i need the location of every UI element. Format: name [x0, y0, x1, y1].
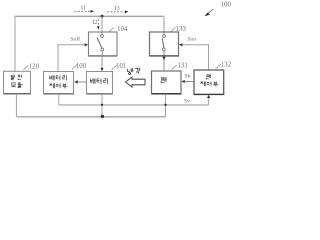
arrow: battery to battery control unit — [78, 81, 87, 83]
label 100 with leader — [72, 64, 78, 69]
label 104 with leader — [109, 27, 114, 31]
text 배터리 inside 101 — [90, 78, 107, 83]
wire: switch 104 output down to battery with arrow — [101, 56, 103, 68]
node: fan lead crossing sense bus — [164, 104, 166, 106]
label 132 with leader — [216, 64, 221, 69]
text 배터리 제어부 inside 110 — [49, 75, 67, 88]
svg-text:100: 100 — [76, 63, 87, 70]
wire: generation module down lead — [16, 94, 18, 117]
box 110: battery control unit — [44, 72, 74, 95]
wire: switch 133 down to fan 131 with arrowhead near switch — [163, 56, 165, 71]
switch S1 inside 104: terminals and blade — [101, 32, 103, 34]
box 101: battery — [87, 72, 113, 95]
wire: sense bus up into fan controller 132 with arrow — [208, 98, 210, 105]
svg-text:100: 100 — [221, 1, 232, 9]
svg-text:104: 104 — [117, 26, 128, 33]
text 팬 제어부 inside 132 — [200, 74, 218, 86]
wire: top supply line — [15, 15, 164, 17]
svg-text:132: 132 — [221, 61, 232, 68]
node: battery lead joining bottom line — [101, 115, 104, 118]
wire: sense bus Sv — [59, 104, 209, 106]
svg-text:Soff: Soff — [70, 35, 80, 42]
svg-text:131: 131 — [178, 62, 188, 69]
box 132: fan control unit — [194, 70, 224, 95]
wire: top line down into switch 104 — [101, 16, 103, 32]
svg-text:Sb: Sb — [185, 74, 191, 80]
label 101 with leader — [112, 65, 118, 70]
text 발전 모듈 inside 120 — [11, 75, 23, 88]
box 131: fan — [152, 71, 182, 94]
wire: top line corner down into switch 133 — [163, 16, 165, 32]
cooling block arrow 냉각 — [127, 67, 140, 74]
svg-text:I3: I3 — [115, 5, 120, 12]
svg-text:133: 133 — [176, 26, 187, 33]
node: battery lead crossing sense bus — [101, 104, 103, 106]
switch box 104 — [89, 32, 118, 56]
text 팬 inside 131 — [161, 77, 166, 82]
label 133 with leader — [171, 27, 176, 31]
svg-text:I1: I1 — [81, 4, 86, 11]
switch box 133 — [150, 32, 179, 56]
svg-text:Son: Son — [187, 37, 196, 43]
switch S2 inside 133: terminals and blade — [163, 32, 165, 34]
svg-text:101: 101 — [116, 63, 126, 70]
node: junction dot on top line above switch 104 — [101, 15, 104, 18]
wire: left loop vertical from generation module up to top line — [14, 16, 16, 71]
wire: bottom return line — [17, 116, 166, 118]
svg-text:Sv: Sv — [184, 99, 190, 105]
svg-text:I2: I2 — [92, 19, 97, 26]
svg-text:120: 120 — [29, 64, 40, 71]
box 120: generation module — [4, 71, 31, 94]
wire: battery down lead — [101, 94, 103, 117]
wire: fan down lead — [165, 94, 167, 117]
label 120 with leader — [24, 65, 29, 70]
label 131 with leader — [172, 65, 177, 70]
wire: battery control unit down lead to sense bus — [58, 94, 60, 105]
